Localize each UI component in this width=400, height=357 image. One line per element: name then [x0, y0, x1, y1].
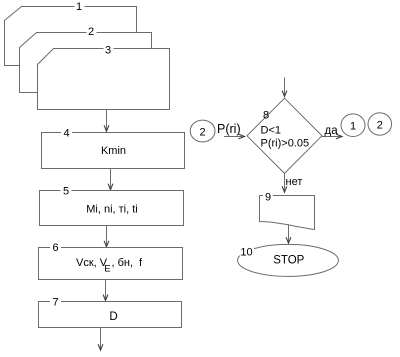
svg-text:3: 3 — [105, 45, 111, 57]
wire into diamond top — [284, 78, 286, 97]
wire diamond to document 9 — [284, 174, 286, 193]
label 7 — [50, 297, 61, 306]
svg-text:2: 2 — [200, 127, 206, 139]
document stack shape 1 — [5, 7, 137, 66]
label 2 — [87, 26, 97, 35]
svg-text:P(ri)>0.05: P(ri)>0.05 — [261, 138, 310, 150]
svg-text:2: 2 — [88, 26, 94, 38]
label 1 — [75, 2, 85, 11]
label 9 — [263, 191, 273, 200]
document stack shape 3 — [38, 49, 170, 110]
document shape 9 — [260, 196, 315, 230]
wire box5 to box6 — [106, 226, 108, 247]
connector circle 2 right — [368, 113, 392, 135]
label 6 — [50, 243, 61, 252]
label 10 — [239, 247, 254, 256]
svg-text:P(ri): P(ri) — [217, 122, 241, 136]
svg-text:10: 10 — [240, 247, 252, 259]
document stack shape 2 — [20, 33, 152, 93]
label 5 — [61, 186, 72, 195]
wire box4 to box5 — [110, 169, 112, 190]
svg-text:1: 1 — [350, 121, 356, 133]
label 3 — [104, 44, 114, 53]
svg-text:Kmin: Kmin — [101, 145, 126, 157]
label 4 — [61, 128, 72, 137]
decision diamond 8 — [247, 98, 322, 173]
svg-text:1: 1 — [76, 1, 82, 13]
svg-text:5: 5 — [63, 186, 69, 198]
wire box7 continuation arrow — [100, 328, 102, 351]
wire shape3 to box4 — [106, 110, 108, 132]
process box 5 — [40, 191, 184, 226]
wire P(ri) to diamond — [225, 136, 245, 138]
wire diamond to yes circles — [322, 136, 342, 138]
svg-text:9: 9 — [265, 192, 271, 204]
process box 7 — [39, 302, 182, 328]
connector circle 1 right — [341, 114, 365, 137]
svg-text:4: 4 — [63, 128, 69, 140]
svg-text:STOP: STOP — [273, 255, 304, 267]
connector circle 2 left — [190, 120, 215, 142]
svg-text:D<1: D<1 — [261, 125, 282, 137]
process box 4 — [42, 133, 185, 169]
svg-text:, бн,: , бн, — [112, 257, 134, 269]
process box 6 — [39, 248, 183, 280]
wire box6 to box7 — [105, 280, 107, 301]
svg-text:E: E — [104, 264, 110, 275]
svg-text:да: да — [325, 125, 339, 137]
svg-text:нет: нет — [286, 176, 303, 188]
wire document 9 to stop — [288, 225, 290, 243]
svg-text:7: 7 — [52, 297, 58, 309]
svg-text:D: D — [109, 311, 117, 323]
svg-text:6: 6 — [52, 242, 58, 254]
terminator ellipse 10 STOP — [238, 244, 339, 276]
svg-text:Vск, V: Vск, V — [76, 257, 108, 269]
svg-text:2: 2 — [377, 120, 383, 132]
svg-text:Mi, ni, тi, ti: Mi, ni, тi, ti — [86, 204, 138, 216]
svg-text:8: 8 — [263, 110, 269, 122]
